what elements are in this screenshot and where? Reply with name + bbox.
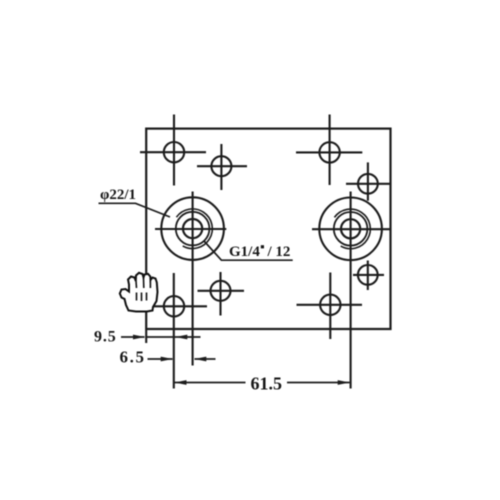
svg-text:9.5: 9.5 bbox=[94, 329, 117, 346]
svg-text:/ 12: / 12 bbox=[267, 244, 291, 260]
svg-text:6.5: 6.5 bbox=[120, 348, 146, 367]
svg-text:61.5: 61.5 bbox=[251, 374, 283, 394]
svg-text:φ22/1: φ22/1 bbox=[100, 187, 136, 203]
svg-text:G1/4: G1/4 bbox=[229, 244, 260, 260]
